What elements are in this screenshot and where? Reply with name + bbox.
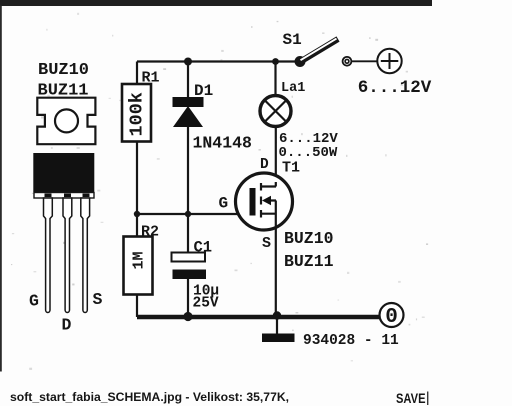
svg-text:G: G: [219, 195, 229, 213]
switch S1 open contact: [343, 57, 352, 66]
lamp La1: [260, 96, 291, 127]
transistor T1 gate bar: [250, 188, 256, 216]
wire: contact to battery terminal: [352, 60, 378, 62]
diode D1 cathode bar: [173, 97, 204, 107]
wire: top rail: [137, 60, 300, 62]
ground terminal 0: [380, 303, 404, 327]
svg-text:soft_start_fabia_SCHEMA.jpg -: soft_start_fabia_SCHEMA.jpg - Velikost: …: [10, 390, 289, 404]
wire: left column top (rail to R1): [136, 62, 138, 85]
wire: gate rail: [137, 213, 250, 215]
TO-220 mounting hole: [55, 109, 78, 132]
svg-text:D: D: [62, 316, 72, 335]
svg-text:6...12V: 6...12V: [358, 78, 432, 98]
node: C1 ground junction: [183, 312, 192, 321]
switch S1 lever: [299, 39, 338, 63]
svg-text:La1: La1: [281, 81, 305, 96]
wire: rail to D1: [187, 62, 189, 98]
text cursor: [427, 392, 428, 406]
svg-text:S: S: [262, 235, 271, 252]
resistor R2: [124, 237, 153, 295]
svg-text:T1: T1: [282, 160, 300, 177]
TO-220 leg S: [81, 198, 90, 313]
resistor R1: [122, 84, 151, 142]
node: gate-C1 junction: [185, 211, 191, 217]
TO-220 bottom flange: [34, 193, 94, 199]
node: top rail / D1 junction: [184, 58, 192, 66]
wire: gate rail to R2: [136, 214, 138, 237]
transistor T1 source lead: [261, 201, 276, 318]
battery plus terminal: [377, 49, 401, 73]
svg-text:BUZ11: BUZ11: [284, 252, 334, 271]
switch S1 pivot node: [295, 56, 306, 67]
wire: lamp to MOSFET drain: [275, 127, 277, 187]
svg-text:C1: C1: [194, 239, 213, 257]
wire: junction to ground symbol: [276, 317, 278, 334]
TO-220 flange pad 2: [64, 194, 71, 198]
svg-text:0: 0: [385, 306, 398, 329]
transistor T1 circle: [236, 173, 293, 230]
wire: gate rail to C1: [187, 214, 189, 253]
TO-220 package tab: [37, 98, 95, 145]
svg-text:S1: S1: [283, 31, 302, 49]
TO-220 body: [33, 153, 94, 192]
svg-text:R1: R1: [142, 70, 160, 87]
svg-text:100k: 100k: [127, 92, 148, 136]
svg-text:S: S: [93, 290, 103, 309]
svg-text:BUZ10: BUZ10: [38, 61, 89, 80]
svg-text:1N4148: 1N4148: [193, 134, 253, 153]
wire: R1 bottom to gate rail: [136, 142, 138, 215]
transistor T1 drain lead: [261, 182, 277, 191]
svg-text:25V: 25V: [193, 296, 219, 312]
svg-text:934028 - 11: 934028 - 11: [303, 333, 399, 349]
capacitor C1 top plate: [172, 253, 206, 262]
ground symbol: [262, 334, 295, 343]
TO-220 leg G: [44, 198, 53, 313]
node: gate-left junction: [134, 211, 140, 217]
svg-text:1M: 1M: [131, 251, 148, 269]
wire: C1 to ground rail: [187, 279, 189, 317]
node: top rail / lamp junction: [272, 58, 279, 65]
svg-text:D1: D1: [194, 82, 213, 100]
TO-220 flange pad 3: [83, 194, 90, 198]
wire: D1 anode to gate rail: [187, 127, 189, 214]
TO-220 flange pad 1: [45, 194, 52, 198]
diode D1 triangle: [173, 106, 203, 127]
TO-220 leg D: [63, 198, 72, 313]
wire: R2 bottom to ground rail: [136, 295, 138, 318]
svg-text:G: G: [29, 292, 39, 311]
left border line: [0, 6, 2, 372]
svg-text:D: D: [260, 157, 269, 173]
transistor T1 substrate arrow: [261, 197, 276, 205]
capacitor C1 bottom plate: [173, 270, 207, 280]
svg-text:R2: R2: [141, 224, 159, 241]
top browser bar: [0, 0, 432, 6]
svg-text:SAVE: SAVE: [396, 390, 426, 406]
node: source ground junction: [273, 311, 281, 319]
wire: rail to lamp: [274, 62, 276, 97]
svg-text:BUZ10: BUZ10: [284, 229, 334, 248]
ground rail (thick): [137, 315, 380, 320]
